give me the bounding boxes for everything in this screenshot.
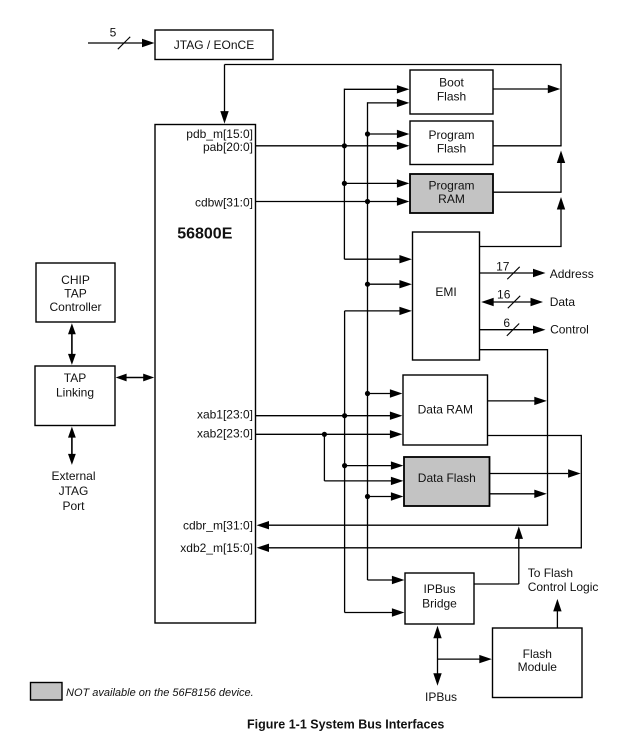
wire pab branch to Boot Flash upper arrow	[344, 85, 409, 93]
wire Boot Flash output with arrow into read bus	[493, 85, 560, 93]
block Program RAM (gray)	[410, 174, 493, 213]
junction cdbw to EMI	[365, 282, 370, 287]
block Data Flash (gray)	[404, 457, 490, 506]
svg-text:Figure 1-1 System Bus Interfac: Figure 1-1 System Bus Interfaces	[247, 718, 444, 732]
svg-text:Data Flash: Data Flash	[418, 471, 476, 485]
wire EMI upper-right output to read bus	[480, 246, 562, 248]
wire cdbw turn into IPBus Bridge upper arrow	[368, 576, 405, 584]
svg-text:Address: Address	[550, 267, 594, 281]
wire pdb_m vertical into 56800E top with down arrow	[220, 65, 228, 124]
block Data RAM	[403, 375, 488, 445]
wire cdbr vertical x=547.5	[547, 349, 549, 525]
svg-text:Flash: Flash	[523, 647, 552, 661]
svg-text:Control: Control	[550, 323, 589, 337]
wire EMI lower-right output	[480, 349, 548, 351]
wire xab1 turn into IPBus Bridge lower arrow	[345, 608, 405, 616]
label To Flash Control Logic	[528, 566, 599, 594]
block Boot Flash	[410, 70, 493, 114]
svg-text:17: 17	[496, 259, 510, 273]
junction cdbw to Data Flash	[365, 494, 370, 499]
svg-text:Data: Data	[550, 295, 576, 309]
svg-text:To Flash: To Flash	[528, 566, 573, 580]
svg-text:xdb2_m[15:0]: xdb2_m[15:0]	[180, 541, 253, 555]
svg-text:Flash: Flash	[437, 142, 466, 156]
junction cdbw to Data RAM	[365, 391, 370, 396]
wire xab1 branch into EMI arrow	[345, 307, 412, 315]
pin label cdbr_m[31:0]	[183, 519, 253, 533]
wire pab branch to Program RAM upper arrow	[344, 179, 409, 187]
svg-text:cdbw[31:0]: cdbw[31:0]	[195, 196, 253, 210]
wire double arrow TAP Linking to External JTAG Port	[68, 427, 76, 465]
wire cdbw branch to Program Flash upper arrow	[368, 130, 410, 138]
wire cdbw branch to Boot Flash lower arrow	[368, 99, 410, 107]
block CHIP TAP Controller	[36, 263, 115, 322]
wire Data Flash output arrow into xdb2 vertical	[490, 469, 581, 477]
svg-text:6: 6	[503, 316, 510, 330]
junction xab1 at x=344.6	[342, 413, 347, 418]
wire cdbw branch to Data RAM upper arrow	[368, 389, 403, 397]
junction pab at x=344.4	[342, 143, 347, 148]
junction cdbw at x=367.5	[365, 199, 370, 204]
wire xab1 horizontal from 56800E to Data RAM with arrow	[256, 412, 403, 420]
svg-text:TAP: TAP	[64, 286, 86, 300]
wire Data RAM second output	[488, 435, 581, 437]
svg-text:xab2[23:0]: xab2[23:0]	[197, 426, 253, 440]
svg-text:IPBus: IPBus	[425, 690, 457, 704]
svg-text:External: External	[51, 469, 95, 483]
svg-text:EMI: EMI	[435, 285, 456, 299]
pin label cdbw[31:0]	[195, 196, 253, 210]
svg-text:Linking: Linking	[56, 386, 94, 400]
wire xab2 horizontal from 56800E to Data RAM with arrow	[256, 430, 403, 438]
svg-text:TAP: TAP	[64, 371, 86, 385]
svg-text:Controller: Controller	[49, 300, 101, 314]
wire cdbr_m horizontal into 56800E with left arrow	[257, 521, 549, 529]
svg-text:IPBus: IPBus	[423, 582, 455, 596]
svg-text:16: 16	[497, 288, 511, 302]
svg-text:pdb_m[15:0]: pdb_m[15:0]	[186, 127, 253, 141]
pin label pdb_m[15:0]	[186, 127, 253, 141]
block EMI	[413, 232, 480, 360]
wire program read bus vertical upper segment	[560, 64, 562, 146]
svg-text:pab[20:0]: pab[20:0]	[203, 140, 253, 154]
wire xdb2 vertical x=581.3	[580, 435, 582, 548]
junction pab to Program RAM	[342, 181, 347, 186]
junction xab2 at x=324.4	[322, 432, 327, 437]
wire xdb2_m horizontal into 56800E with left arrow	[257, 544, 582, 552]
wire IPBus Bridge output to cdbr with up arrow	[474, 526, 523, 584]
wire Data Flash output arrow into cdbr vertical	[490, 490, 547, 498]
block TAP Linking	[35, 366, 115, 426]
legend gray box	[31, 683, 63, 701]
svg-text:JTAG: JTAG	[59, 484, 89, 498]
svg-text:Module: Module	[518, 660, 558, 674]
block IPBus Bridge	[405, 573, 474, 624]
wire xab2 branch to Data Flash middle arrow	[324, 477, 403, 485]
svg-text:5: 5	[110, 25, 117, 39]
wire Flash Module to flash control logic up arrow	[553, 599, 561, 628]
wire pab branch into EMI arrow	[344, 255, 412, 263]
svg-text:xab1[23:0]: xab1[23:0]	[197, 408, 253, 422]
wire read bus segment with up arrow below Program Flash junction	[557, 151, 565, 193]
block 56800E core	[155, 125, 256, 624]
pin label pab[20:0]	[203, 140, 253, 154]
legend text	[66, 687, 254, 699]
wire Program Flash output joining read bus	[493, 145, 562, 147]
pin label xab2[23:0]	[197, 426, 253, 440]
wire xab1 branch to Data Flash upper arrow	[345, 461, 404, 469]
wire double arrow TAP Linking to 56800E	[116, 374, 155, 382]
wire xab1 vertical x=344.6	[344, 311, 346, 613]
wire IPBus branch into Flash Module	[438, 655, 492, 663]
wire cdbw horizontal from 56800E to Program RAM with arrow	[256, 197, 410, 205]
wire 5-bit JTAG input with bus slash	[88, 25, 155, 49]
wire EMI Control bus with slash and arrow	[480, 316, 589, 336]
svg-text:56800E: 56800E	[177, 226, 232, 243]
wire cdbw vertical x=367.5	[367, 102, 369, 580]
svg-text:Control Logic: Control Logic	[528, 580, 599, 594]
wire cdbw branch into EMI arrow	[368, 280, 412, 288]
label IPBus	[425, 690, 457, 704]
block JTAG / EOnCE	[155, 30, 273, 60]
svg-text:Program: Program	[428, 179, 474, 193]
label External JTAG Port	[51, 469, 95, 513]
svg-text:Port: Port	[62, 499, 85, 513]
svg-text:Bridge: Bridge	[422, 596, 457, 610]
wire Data RAM output arrow into cdbr vertical	[488, 397, 547, 405]
svg-text:JTAG / EOnCE: JTAG / EOnCE	[174, 38, 254, 52]
svg-text:NOT available on the 56F8156 d: NOT available on the 56F8156 device.	[66, 687, 254, 699]
wire EMI Address bus with slash and arrow	[480, 259, 594, 280]
wire IPBus bidirectional vertical below bridge	[433, 626, 441, 686]
label 56800E	[177, 226, 232, 243]
junction cdbw to Program Flash	[365, 131, 370, 136]
wire double arrow CHIP TAP to TAP Linking	[68, 323, 76, 365]
wire pab vertical x=344.4	[343, 89, 345, 260]
svg-text:Boot: Boot	[439, 76, 464, 90]
wire xab2 vertical branch	[323, 434, 325, 481]
wire pdb_m horizontal (y=64.5) from flash read bus to core column	[225, 64, 562, 66]
block Flash Module	[493, 628, 583, 698]
block Program Flash	[410, 121, 493, 165]
svg-text:Flash: Flash	[437, 90, 466, 104]
svg-text:Program: Program	[428, 128, 474, 142]
wire cdbw branch to Data Flash lower arrow	[368, 492, 404, 500]
pin label xdb2_m[15:0]	[180, 541, 253, 555]
svg-text:CHIP: CHIP	[61, 273, 90, 287]
wire Program RAM output joining read bus	[493, 191, 562, 193]
wire EMI Data bus bidirectional with slash	[481, 288, 575, 310]
wire read bus segment with up arrow from EMI	[557, 197, 565, 247]
svg-text:cdbr_m[31:0]: cdbr_m[31:0]	[183, 519, 253, 533]
junction xab1 to Data Flash	[342, 463, 347, 468]
wire pab horizontal from 56800E to Program Flash with arrow	[256, 142, 410, 150]
svg-text:Data RAM: Data RAM	[418, 403, 473, 417]
caption Figure 1-1 System Bus Interfaces	[247, 718, 444, 732]
pin label xab1[23:0]	[197, 408, 253, 422]
svg-text:RAM: RAM	[438, 192, 465, 206]
